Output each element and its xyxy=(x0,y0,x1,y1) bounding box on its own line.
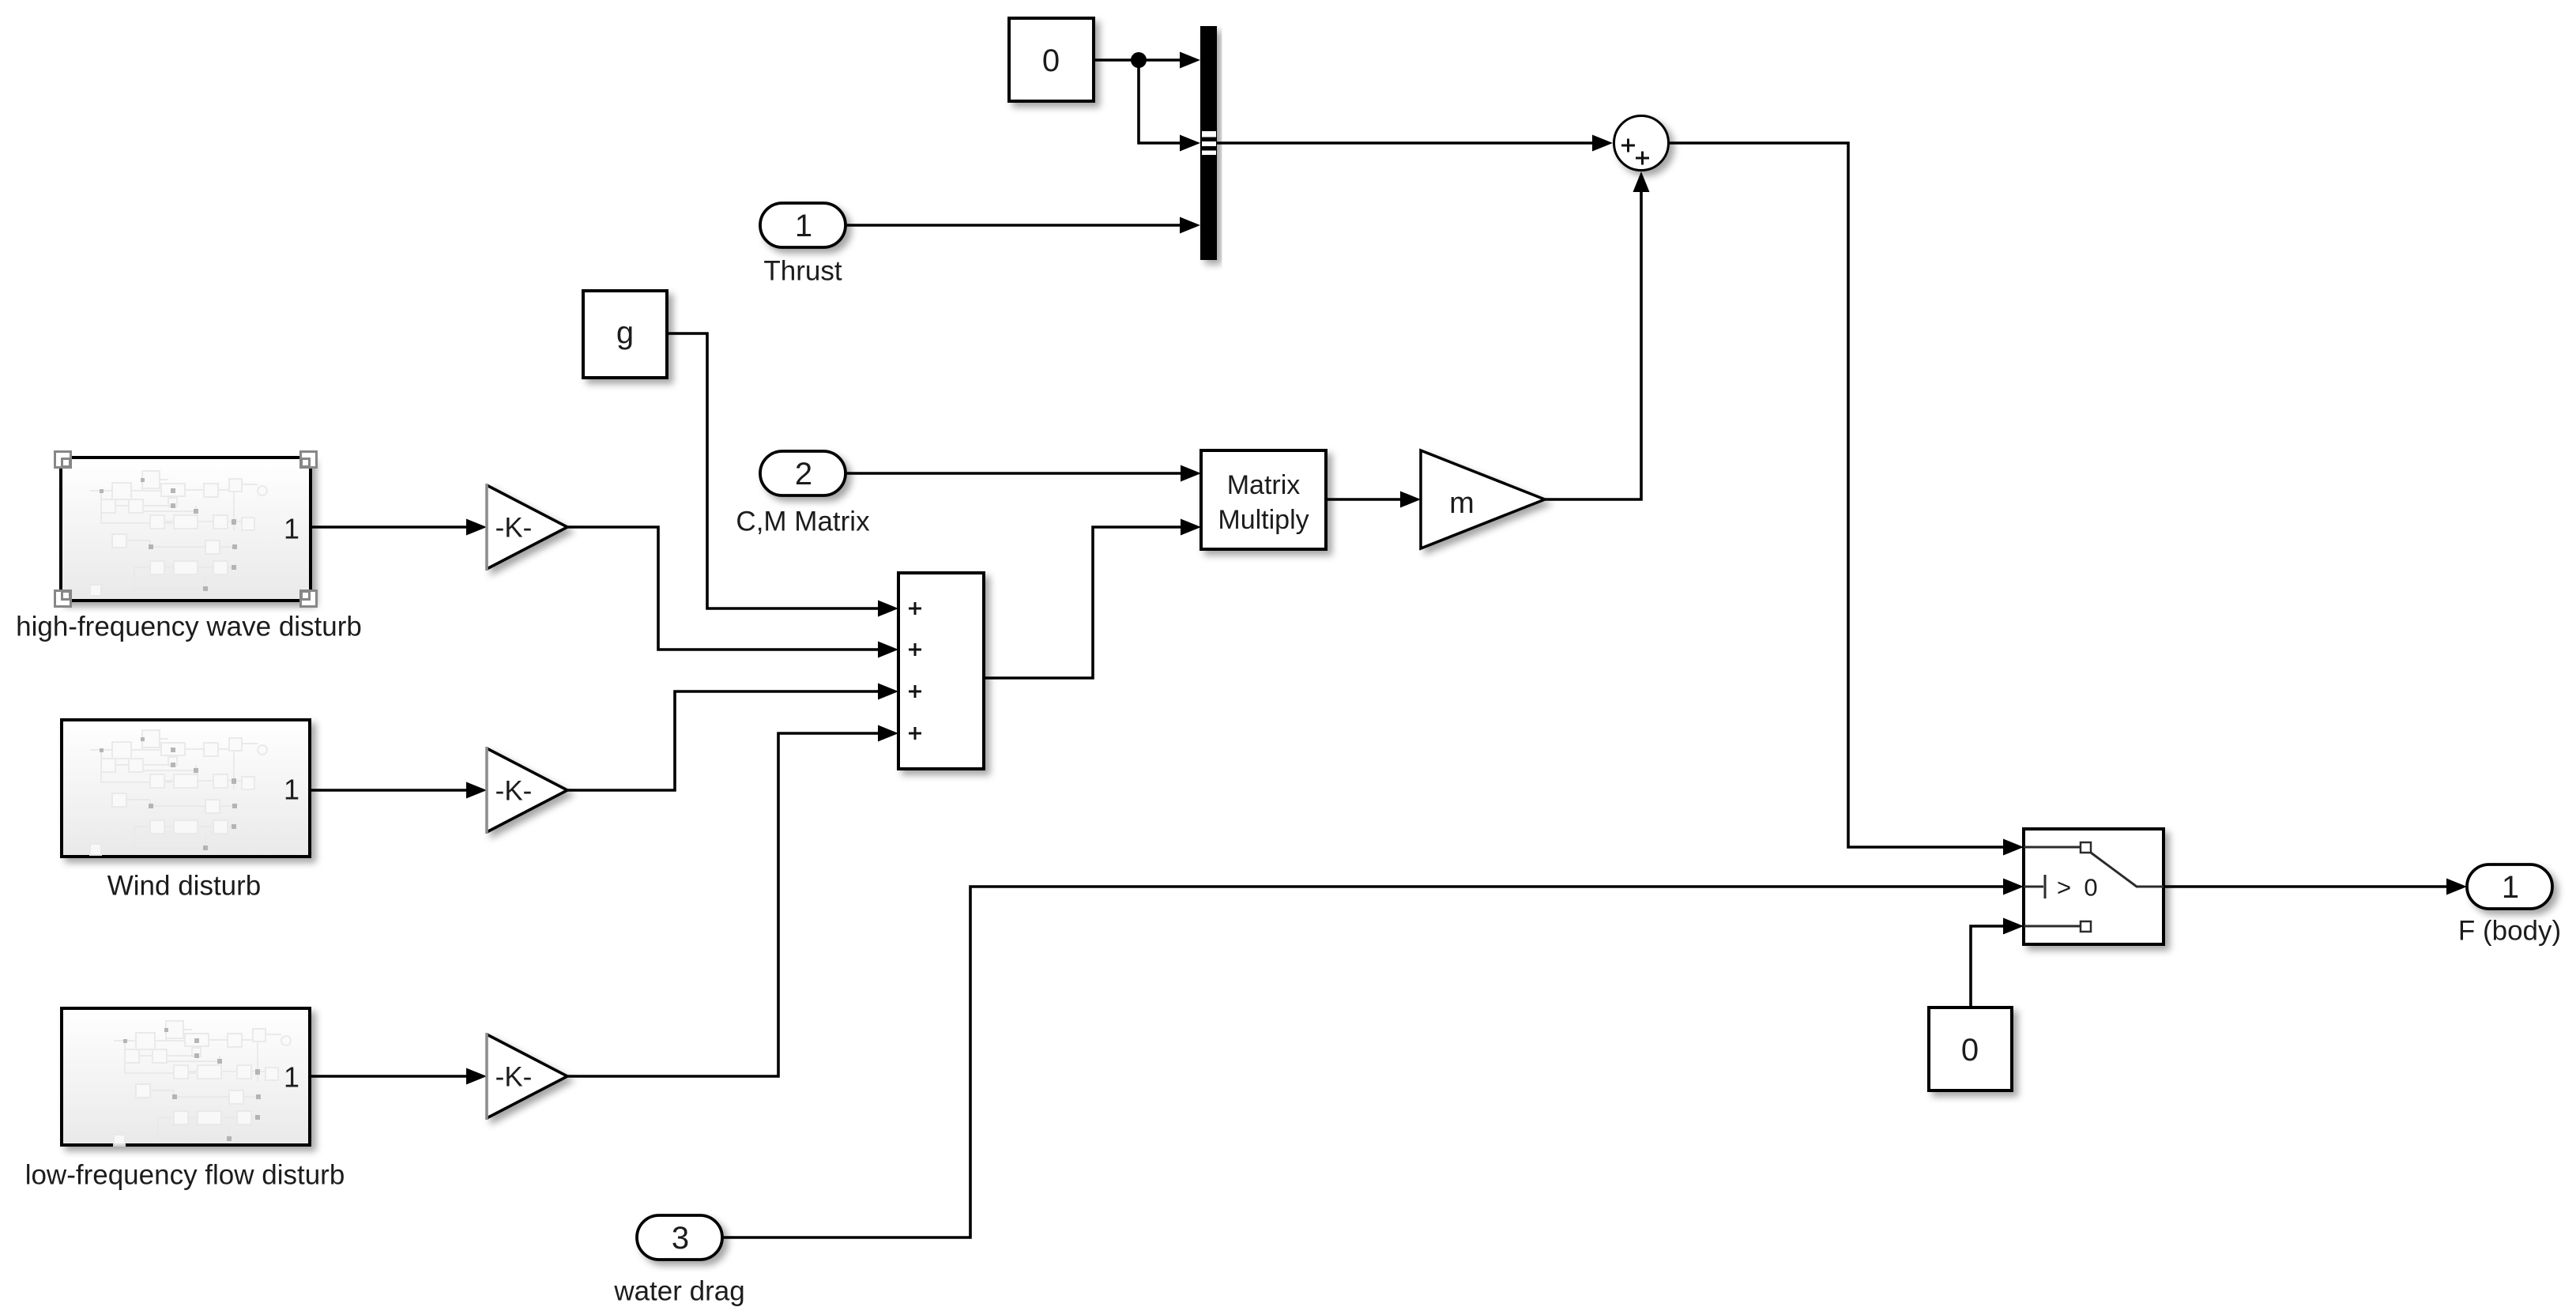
gain1 -K- xyxy=(487,484,567,571)
wire gain1 to adder in2 xyxy=(567,527,878,650)
gain3 -K- xyxy=(487,1033,567,1120)
gain2 -K- xyxy=(487,747,567,834)
gain m xyxy=(1421,450,1545,548)
wire subsys2 to gain2 xyxy=(310,789,466,792)
wire const0 to mux in1 xyxy=(1094,58,1180,62)
svg-text:low-frequency flow disturb: low-frequency flow disturb xyxy=(25,1160,345,1191)
svg-text:3: 3 xyxy=(672,1221,689,1256)
wire g to adder in1 xyxy=(667,333,878,608)
constant block 0 (top) xyxy=(1009,18,1094,101)
wire sum out to switch in1 xyxy=(1670,143,2003,847)
svg-text:m: m xyxy=(1449,487,1474,520)
svg-text:F (body): F (body) xyxy=(2458,916,2561,947)
junction node xyxy=(1131,52,1147,68)
sum block (+ +) xyxy=(1614,116,1669,171)
inport 2 C,M Matrix xyxy=(760,451,845,495)
svg-text:C,M Matrix: C,M Matrix xyxy=(736,507,870,537)
subsystem 3 preview thumbnail xyxy=(114,1021,291,1146)
constant block 0 (bottom) xyxy=(1929,1008,2012,1090)
wire switch out to outport xyxy=(2164,885,2446,888)
mux output notch xyxy=(1202,131,1216,155)
selection handles of subsystem 1 xyxy=(55,452,317,607)
svg-text:high-frequency wave disturb: high-frequency wave disturb xyxy=(16,612,362,642)
svg-text:Thrust: Thrust xyxy=(763,256,842,287)
wire branch to mux in2 xyxy=(1139,60,1180,143)
svg-text:g: g xyxy=(616,315,634,350)
adder (sum rectangle with four plus) xyxy=(898,573,984,769)
svg-text:1: 1 xyxy=(284,774,299,806)
wire water drag to switch in2 xyxy=(722,887,2003,1237)
svg-text:Multiply: Multiply xyxy=(1218,505,1309,535)
mux bar xyxy=(1200,26,1217,260)
wire const0 bottom to switch in3 xyxy=(1971,926,2003,1008)
svg-text:Wind disturb: Wind disturb xyxy=(107,871,262,902)
outport 1 F (body) xyxy=(2467,864,2552,909)
g constant block xyxy=(583,291,667,378)
wire gain m to sum bottom xyxy=(1545,192,1641,499)
svg-text:0: 0 xyxy=(1961,1033,1979,1068)
svg-text:Matrix: Matrix xyxy=(1227,470,1301,500)
inport 1 Thrust xyxy=(760,203,845,247)
wire C,M to MatrixMultiply in1 xyxy=(845,472,1181,475)
svg-text:-K-: -K- xyxy=(495,1062,533,1093)
wire gain3 to adder in4 xyxy=(567,733,878,1076)
subsystem 2 preview thumbnail xyxy=(90,730,267,855)
svg-text:1: 1 xyxy=(795,209,812,243)
subsystem low-frequency flow disturb xyxy=(62,1008,310,1145)
Matrix Multiply block xyxy=(1201,450,1326,549)
subsystem high-frequency wave disturb (selected) xyxy=(61,458,311,601)
svg-text:-K-: -K- xyxy=(495,513,533,544)
inport 3 water drag xyxy=(637,1215,722,1260)
svg-text:water drag: water drag xyxy=(613,1276,744,1307)
svg-text:0: 0 xyxy=(1042,43,1060,78)
svg-text:1: 1 xyxy=(2502,870,2519,905)
wire adder out to MatrixMultiply in2 xyxy=(984,527,1181,678)
subsystem 1 preview thumbnail xyxy=(90,471,267,596)
svg-text:2: 2 xyxy=(795,457,812,492)
svg-text:0: 0 xyxy=(2084,874,2097,902)
subsystem Wind disturb xyxy=(62,720,310,857)
svg-text:1: 1 xyxy=(284,513,299,545)
wire mux out to sum xyxy=(1217,141,1592,145)
svg-text:-K-: -K- xyxy=(495,776,533,807)
wire subsys1 to gain1 xyxy=(311,525,466,529)
wire gain2 to adder in3 xyxy=(567,691,878,790)
wire MatrixMultiply to gain m xyxy=(1326,498,1400,501)
svg-text:1: 1 xyxy=(284,1061,299,1094)
svg-text:>: > xyxy=(2057,874,2071,902)
wire subsys3 to gain3 xyxy=(310,1075,466,1078)
switch block xyxy=(2024,829,2164,944)
wire Thrust to mux in3 xyxy=(845,224,1180,227)
